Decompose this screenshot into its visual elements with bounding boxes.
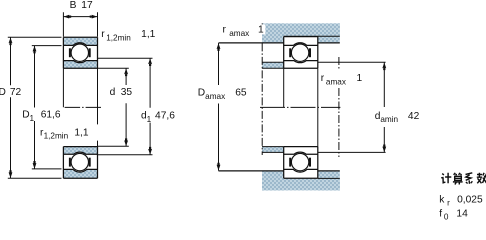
housing block top-right (blue)	[318, 23, 340, 42]
axis center line (left figure)	[65, 106, 101, 108]
bearing body white base (bottom section)	[63, 147, 97, 179]
dimension d extension lines	[98, 68, 129, 146]
right bearing bottom section outline with groove arcs	[284, 147, 318, 179]
arrow d top	[124, 69, 128, 77]
ball (right top)	[291, 44, 308, 61]
housing shoulder faces (top)	[219, 42, 340, 44]
dimension d line	[125, 69, 127, 147]
svg-text:d147,6: d147,6	[141, 111, 175, 124]
char 算	[453, 173, 463, 185]
housing break line right (dash-dot)	[338, 57, 340, 157]
svg-text:f014: f014	[439, 208, 468, 221]
cage bars (bottom)	[69, 158, 71, 167]
housing bore line (bottom)	[318, 177, 340, 179]
svg-text:Damax65: Damax65	[198, 87, 247, 100]
dimension Damax line	[218, 43, 220, 171]
housing block bottom-right (blue)	[318, 171, 340, 190]
shaft shoulder strip (bottom, blue)	[262, 147, 284, 153]
groove punch (bottom)	[70, 152, 91, 173]
arrow D top	[9, 38, 13, 46]
svg-text:r1,2min1,1: r1,2min1,1	[40, 127, 89, 140]
arrow damin bottom	[382, 145, 386, 153]
inner ring top (blue)	[63, 61, 97, 69]
dimension D extension lines	[8, 37, 62, 178]
dimension B extension lines	[63, 12, 97, 36]
ball (bottom)	[71, 153, 88, 170]
right bore silhouette edges	[284, 68, 318, 146]
bearing body white base (top section)	[63, 37, 97, 68]
bearing side faces	[63, 37, 97, 178]
svg-text:r1,2min1,1: r1,2min1,1	[101, 29, 155, 42]
bottom section outline with groove arcs	[63, 147, 97, 179]
char 数	[477, 173, 486, 184]
arrow d bottom	[124, 138, 128, 146]
char 计	[441, 173, 451, 183]
right bearing white base (top section)	[284, 37, 318, 69]
inner ring bottom (blue)	[63, 147, 97, 155]
shaft shoulder strip (top, blue)	[262, 62, 284, 68]
dimension B line	[63, 16, 97, 18]
dimension d1 line	[149, 58, 151, 154]
axis center line (right figure)	[260, 106, 340, 108]
housing shoulder faces (bottom)	[219, 170, 340, 172]
dimension D1 extension lines	[32, 46, 62, 169]
arrow d1 bottom	[148, 147, 152, 155]
white backing for r amax top value	[258, 24, 266, 34]
arrow B left	[64, 15, 72, 19]
dimension damin line	[383, 63, 385, 153]
right bearing white base (bottom section)	[284, 147, 318, 179]
arrow Damax bottom	[217, 163, 221, 171]
dimension damin extension lines	[318, 62, 386, 152]
char 系	[466, 173, 473, 184]
right bearing top section outline with groove arcs	[284, 37, 318, 69]
svg-text:ramax1: ramax1	[321, 73, 363, 86]
housing shoulder top-left (blue)	[262, 23, 284, 42]
svg-text:D161,6: D161,6	[22, 109, 61, 122]
arrow D bottom	[9, 170, 13, 178]
heading 计算系数 (hand drawn strokes)	[441, 173, 486, 185]
arrow D1 top	[33, 46, 37, 54]
svg-text:damin42: damin42	[375, 111, 420, 124]
cage bars (top)	[69, 48, 71, 57]
outer ring top (blue)	[63, 37, 97, 45]
dimension D1 line	[34, 46, 36, 169]
ball (top)	[71, 44, 88, 61]
right bearing side faces	[284, 37, 318, 179]
top section outline with groove arcs	[63, 37, 97, 68]
groove punch (top)	[70, 42, 91, 63]
svg-text:ramax1: ramax1	[223, 25, 265, 38]
arrow B right	[90, 15, 98, 19]
housing block bottom-left (blue)	[262, 171, 284, 190]
housing bore line (top)	[284, 35, 340, 37]
dimension d1 extension lines	[98, 58, 153, 155]
svg-text:kr0,025: kr0,025	[439, 195, 483, 208]
arrow D1 bottom	[33, 161, 37, 169]
arrow Damax top	[217, 43, 221, 51]
svg-text:B17: B17	[70, 0, 93, 11]
outer ring bottom (blue)	[63, 169, 97, 178]
arrow d1 top	[148, 58, 152, 66]
dimension D line	[10, 38, 12, 179]
svg-text:D72: D72	[0, 87, 22, 98]
shaft shoulder edge (bottom)	[262, 147, 284, 153]
housing top band (blue)	[262, 23, 340, 36]
svg-text:d35: d35	[110, 87, 133, 98]
bore silhouette edges	[63, 68, 97, 146]
arrow damin top	[382, 63, 386, 71]
housing bottom band (blue)	[262, 179, 340, 191]
shaft shoulder edge (top)	[262, 62, 284, 68]
cage bars (right bottom)	[289, 158, 291, 167]
cage bars (right top)	[289, 48, 291, 57]
ball (right bottom)	[291, 153, 308, 170]
housing break line left (dash-dot)	[261, 23, 263, 155]
